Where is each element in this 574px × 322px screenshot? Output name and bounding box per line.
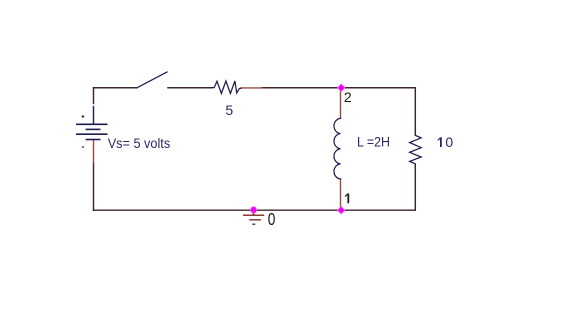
svg-text:2: 2 bbox=[344, 89, 352, 105]
svg-text:L =2H: L =2H bbox=[357, 135, 390, 150]
svg-text:Vs= 5 volts: Vs= 5 volts bbox=[108, 135, 171, 151]
svg-text:5: 5 bbox=[225, 102, 233, 118]
svg-text:0: 0 bbox=[445, 134, 453, 150]
svg-text:0: 0 bbox=[268, 209, 276, 229]
